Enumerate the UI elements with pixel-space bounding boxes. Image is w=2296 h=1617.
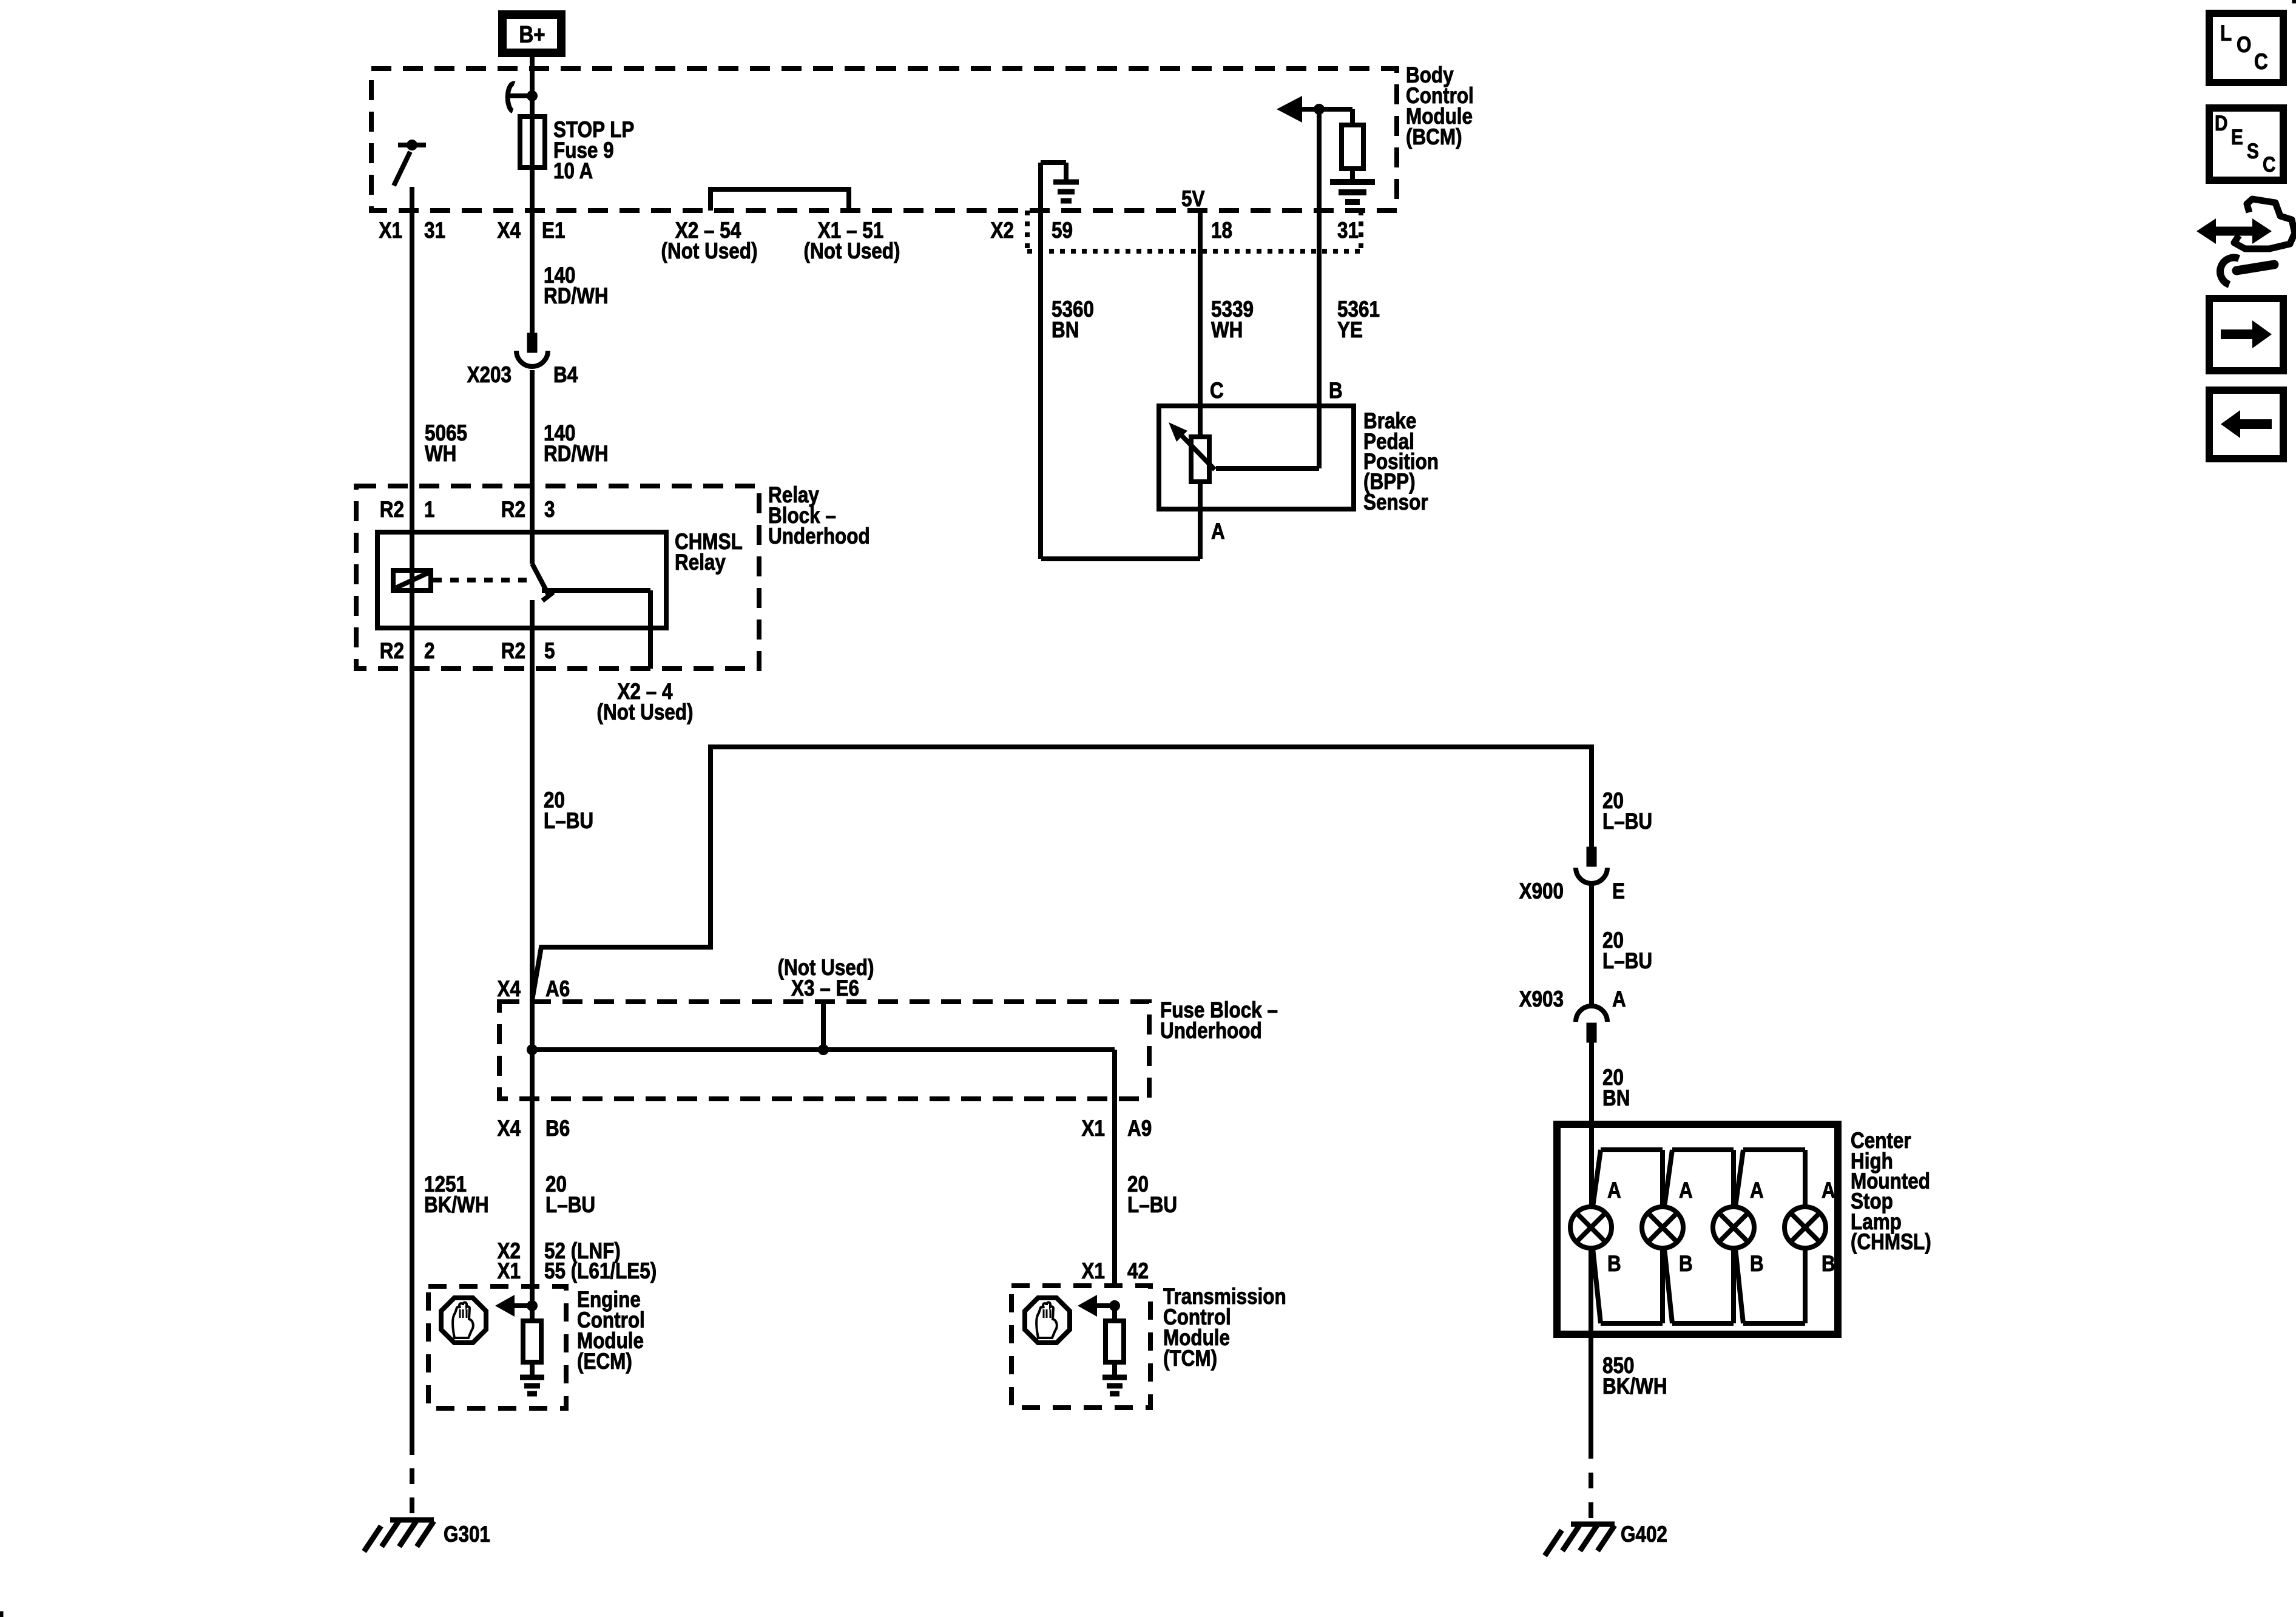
svg-text:L–BU: L–BU: [544, 809, 593, 834]
svg-text:2: 2: [424, 639, 434, 664]
svg-text:E: E: [2231, 126, 2243, 149]
svg-text:(Not Used): (Not Used): [804, 239, 900, 264]
svg-text:RD/WH: RD/WH: [544, 442, 609, 467]
svg-text:R2: R2: [380, 498, 404, 522]
svg-text:X2: X2: [991, 218, 1014, 243]
svg-text:A: A: [1750, 1178, 1764, 1203]
svg-text:5: 5: [544, 639, 555, 664]
svg-text:YE: YE: [1337, 318, 1363, 343]
svg-text:L–BU: L–BU: [1602, 809, 1652, 834]
svg-text:R2: R2: [501, 639, 525, 664]
svg-text:B: B: [1822, 1252, 1835, 1277]
svg-text:A9: A9: [1127, 1116, 1152, 1141]
svg-text:X3 – E6: X3 – E6: [791, 976, 859, 1001]
svg-text:X1: X1: [1082, 1116, 1105, 1141]
svg-text:R2: R2: [501, 498, 525, 522]
svg-text:L–BU: L–BU: [545, 1193, 595, 1218]
svg-text:RD/WH: RD/WH: [544, 284, 609, 309]
svg-text:B6: B6: [545, 1116, 570, 1141]
svg-text:BK/WH: BK/WH: [424, 1193, 489, 1218]
svg-text:L–BU: L–BU: [1127, 1193, 1177, 1218]
svg-text:L–BU: L–BU: [1602, 949, 1652, 974]
svg-text:X1: X1: [1082, 1259, 1105, 1284]
svg-text:59: 59: [1052, 218, 1073, 243]
svg-text:X1: X1: [379, 218, 402, 243]
svg-text:BN: BN: [1052, 318, 1079, 343]
svg-text:B: B: [1750, 1252, 1764, 1277]
svg-text:(CHMSL): (CHMSL): [1851, 1230, 1931, 1255]
svg-text:A: A: [1211, 519, 1225, 544]
svg-text:42: 42: [1127, 1259, 1149, 1284]
svg-text:18: 18: [1211, 218, 1232, 243]
svg-text:X4: X4: [498, 218, 521, 243]
svg-text:L: L: [2220, 21, 2232, 46]
svg-text:R2: R2: [380, 639, 404, 664]
svg-text:(BCM): (BCM): [1406, 125, 1462, 150]
svg-text:B: B: [1607, 1252, 1621, 1277]
svg-text:BN: BN: [1602, 1086, 1630, 1111]
svg-text:WH: WH: [425, 442, 456, 467]
svg-text:X4: X4: [498, 977, 521, 1002]
svg-text:D: D: [2215, 112, 2227, 135]
svg-text:B4: B4: [553, 363, 578, 388]
svg-text:X203: X203: [467, 363, 512, 388]
svg-text:C: C: [2263, 153, 2275, 177]
svg-text:A: A: [1822, 1178, 1835, 1203]
svg-text:Sensor: Sensor: [1363, 490, 1428, 515]
svg-text:B+: B+: [519, 21, 545, 47]
svg-text:O: O: [2237, 33, 2251, 58]
svg-text:31: 31: [1337, 218, 1359, 243]
svg-text:E: E: [1612, 879, 1625, 904]
svg-text:E1: E1: [542, 218, 565, 243]
svg-text:A: A: [1612, 987, 1626, 1012]
svg-text:X903: X903: [1519, 987, 1564, 1012]
svg-text:X900: X900: [1519, 879, 1564, 904]
svg-text:A: A: [1607, 1178, 1621, 1203]
svg-text:(Not Used): (Not Used): [597, 700, 694, 725]
svg-text:(ECM): (ECM): [577, 1349, 632, 1374]
svg-text:5V: 5V: [1181, 187, 1205, 212]
svg-text:55 (L61/LE5): 55 (L61/LE5): [544, 1259, 657, 1284]
svg-text:(Not Used): (Not Used): [661, 239, 758, 264]
svg-text:WH: WH: [1211, 318, 1243, 343]
svg-text:G402: G402: [1621, 1522, 1667, 1547]
svg-text:A: A: [1679, 1178, 1693, 1203]
svg-text:3: 3: [544, 498, 555, 522]
svg-text:C: C: [1210, 379, 1224, 403]
svg-text:B: B: [1329, 379, 1343, 403]
svg-text:1: 1: [424, 498, 434, 522]
svg-text:Relay: Relay: [675, 550, 726, 575]
svg-text:X4: X4: [498, 1116, 521, 1141]
svg-text:10 A: 10 A: [553, 159, 593, 184]
svg-text:BK/WH: BK/WH: [1602, 1374, 1667, 1399]
svg-text:Underhood: Underhood: [768, 524, 870, 549]
svg-text:B: B: [1679, 1252, 1693, 1277]
svg-text:A6: A6: [545, 977, 570, 1002]
svg-text:(TCM): (TCM): [1163, 1346, 1217, 1371]
svg-text:X1: X1: [498, 1259, 521, 1284]
svg-text:S: S: [2247, 140, 2259, 163]
svg-text:Underhood: Underhood: [1160, 1019, 1262, 1044]
svg-text:G301: G301: [444, 1522, 490, 1547]
svg-text:31: 31: [424, 218, 445, 243]
svg-text:C: C: [2254, 50, 2268, 75]
